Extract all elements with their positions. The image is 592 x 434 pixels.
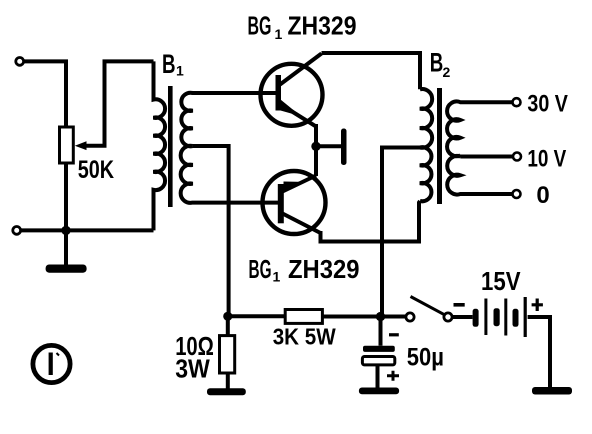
wire Q2 collector to B2 bottom <box>321 201 421 242</box>
junction dot at capacitor <box>376 312 385 321</box>
svg-text:B: B <box>162 49 176 79</box>
ground stub under pot <box>64 230 68 265</box>
svg-text:10 V: 10 V <box>527 146 566 173</box>
svg-text:50µ: 50µ <box>407 344 444 372</box>
svg-text:BG: BG <box>248 11 272 41</box>
junction dot at pot bottom <box>61 226 70 235</box>
wire capacitor to ground <box>376 365 380 389</box>
input terminal top-left <box>16 58 24 66</box>
svg-text:0: 0 <box>536 182 549 209</box>
svg-text:30 V: 30 V <box>527 91 568 118</box>
transformer B2 core <box>437 88 442 204</box>
transformer B2 secondary top section <box>447 101 513 156</box>
plus sign battery <box>532 299 543 312</box>
Q2 emitter diagonal (up) <box>283 176 317 192</box>
resistor 3K 5W body <box>285 310 322 324</box>
svg-text:50K: 50K <box>78 156 114 184</box>
Q2 emitter arrow <box>284 182 303 193</box>
battery plate thick 2 <box>494 308 500 326</box>
ground bar (10ohm) <box>207 388 246 395</box>
svg-text:ZH329: ZH329 <box>288 254 360 284</box>
switch contact circle right <box>444 313 452 321</box>
ground bar (battery) <box>532 387 572 395</box>
top wire Q1 collector to B2 <box>322 53 421 89</box>
chassis T-bar <box>341 129 347 166</box>
output terminal 10V <box>513 153 521 161</box>
transformer B1 secondary bottom half + base wire Q2 <box>181 146 281 203</box>
svg-text:ZH329: ZH329 <box>288 11 357 41</box>
junction dot at 10ohm <box>223 312 232 321</box>
ground bar (capacitor) <box>359 388 399 395</box>
battery plate thick 3 <box>513 309 519 327</box>
transformer B1 primary winding <box>154 61 166 230</box>
plus sign capacitor <box>387 371 399 381</box>
transformer B1 core <box>168 86 173 207</box>
wire battery to ground <box>528 317 550 388</box>
ground bar (pot) <box>46 265 87 273</box>
Q1 collector diagonal <box>280 54 322 85</box>
svg-text:15V: 15V <box>481 266 521 296</box>
bottom-left rail wire <box>21 228 154 232</box>
wiper wire <box>84 61 154 145</box>
wire down to capacitor <box>379 317 383 346</box>
wire 10ohm to ground <box>226 373 230 389</box>
wire switch to battery <box>452 315 472 319</box>
battery plate thin 3 <box>524 297 527 337</box>
wire pot bottom to rail <box>64 163 68 230</box>
Q2 base bar <box>278 184 284 223</box>
switch lever <box>411 297 445 315</box>
wire top input to pot <box>24 61 66 127</box>
battery plate thin 1 <box>484 299 487 336</box>
transistor Q2 circle <box>263 171 326 234</box>
svg-text:BG: BG <box>249 254 272 284</box>
input terminal bottom-left <box>13 227 21 235</box>
wire to 10ohm resistor <box>226 316 230 335</box>
stub to chassis bar <box>316 144 341 148</box>
svg-text:3W: 3W <box>175 354 210 384</box>
Q1 base bar <box>276 75 282 111</box>
capacitor C1 bottom plate <box>362 357 394 365</box>
bottom rail left of 3K <box>229 314 286 318</box>
svg-text:1: 1 <box>273 269 281 285</box>
resistor 10ohm body <box>220 336 235 373</box>
svg-text:B: B <box>430 48 444 78</box>
output terminal 0 <box>513 190 521 198</box>
B2 center tap wire <box>382 148 423 317</box>
Q2 collector diagonal (down) <box>283 214 321 234</box>
output terminal 30V <box>513 98 521 106</box>
minus sign capacitor <box>389 333 399 336</box>
potentiometer R1 50K body <box>60 127 74 163</box>
transformer B2 secondary bottom section <box>447 156 512 195</box>
Q1 emitter diagonal <box>280 104 316 127</box>
svg-text:1: 1 <box>275 26 283 42</box>
battery plate thick 1 <box>473 309 479 327</box>
figure marker circled 1 <box>33 345 70 382</box>
svg-text:3K 5W: 3K 5W <box>273 324 336 350</box>
wiper arrowhead <box>75 141 87 150</box>
switch contact circle left <box>406 313 414 321</box>
10V stub <box>460 155 513 159</box>
transformer B2 primary winding <box>420 89 432 201</box>
svg-text:1: 1 <box>176 63 184 79</box>
transistor Q1 circle <box>261 64 323 126</box>
bottom rail right of 3K <box>322 315 406 319</box>
minus sign battery <box>454 303 465 307</box>
svg-text:2: 2 <box>443 64 451 80</box>
Q1 emitter arrow <box>281 100 302 117</box>
emitter junction dot <box>311 142 320 151</box>
B1 center tap wire down to 10ohm node <box>193 146 229 316</box>
battery plate thin 2 <box>504 299 507 336</box>
transformer B1 secondary top half + base wire Q1 <box>181 93 277 147</box>
wire Q1 emitter down to node <box>314 124 318 176</box>
capacitor C1 top plate <box>363 346 395 352</box>
